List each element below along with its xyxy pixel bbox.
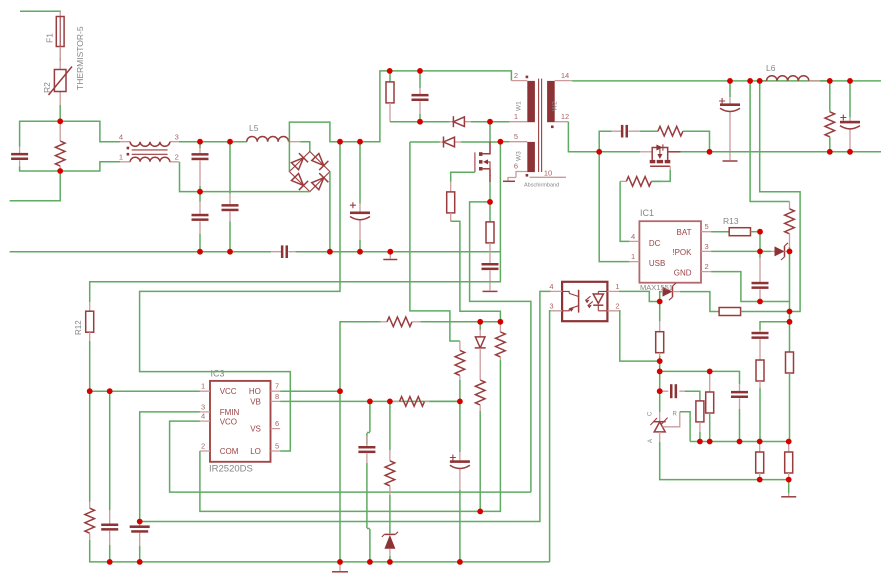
resistor R22 zigzag bbox=[85, 502, 95, 540]
svg-text:2: 2 bbox=[615, 301, 619, 310]
wire to transformer pin5 bbox=[500, 141, 509, 143]
inductor L5 bbox=[247, 123, 300, 142]
wire bbox=[20, 167, 61, 172]
resistor R24 zigzag bbox=[381, 317, 421, 327]
gnd rail y=251.7 left bbox=[10, 251, 272, 253]
node junction bbox=[737, 439, 743, 445]
node junction bbox=[787, 319, 793, 325]
IC1 MAX1551 bbox=[629, 208, 711, 283]
svg-text:1: 1 bbox=[615, 282, 619, 291]
svg-text:2: 2 bbox=[201, 442, 205, 451]
svg-text:3: 3 bbox=[705, 242, 709, 251]
thermistor R2 bbox=[42, 47, 72, 106]
wire secondary top rail bbox=[572, 80, 881, 82]
wire HO to gate drive rail bbox=[340, 322, 381, 391]
node junction bbox=[137, 559, 143, 565]
node junction bbox=[707, 369, 713, 375]
node junction bbox=[367, 559, 373, 565]
svg-text:W1: W1 bbox=[516, 101, 523, 111]
ground symbol bbox=[383, 252, 397, 260]
capacitor C2 bbox=[192, 142, 209, 186]
diode D4 schottky bbox=[660, 283, 680, 302]
wire VB chain from D2 bbox=[410, 142, 460, 341]
fuse F1 bbox=[45, 11, 65, 58]
capacitor C13 bbox=[752, 330, 769, 345]
wire R8 to DC pin bbox=[620, 181, 629, 241]
ground symbol pin6 bbox=[503, 178, 516, 182]
svg-text:2: 2 bbox=[705, 262, 709, 271]
wire cap branch bbox=[760, 322, 790, 330]
wire GND pin bbox=[711, 251, 789, 301]
svg-text:FMIN: FMIN bbox=[220, 408, 240, 417]
snubber capacitor C7 bbox=[412, 71, 429, 122]
node junction bbox=[197, 189, 203, 195]
resistor R21 bbox=[785, 442, 793, 480]
capacitor C4 bbox=[222, 142, 239, 252]
TL431 U2 bbox=[648, 391, 691, 443]
capacitor C8 bbox=[482, 243, 499, 291]
wire to bottom rail bbox=[90, 540, 550, 562]
wire bridge left loop to +rail bbox=[289, 71, 511, 172]
svg-text:W2: W2 bbox=[552, 101, 559, 111]
ground symbol bbox=[723, 160, 738, 162]
svg-text:GND: GND bbox=[674, 268, 692, 277]
gnd rail y=251.7 right bbox=[296, 251, 500, 253]
node junction bbox=[657, 299, 663, 305]
wire source jog to VCO net bbox=[470, 202, 531, 492]
ground symbol bbox=[332, 562, 348, 572]
svg-text:R13: R13 bbox=[723, 216, 739, 226]
node junction bbox=[357, 139, 363, 145]
capacitor C15 series bbox=[660, 384, 685, 398]
wire +5V rail bbox=[599, 151, 640, 153]
svg-text:4: 4 bbox=[631, 232, 635, 241]
diode D5 bbox=[475, 322, 486, 356]
svg-text:HO: HO bbox=[249, 387, 261, 396]
svg-text:Abschirmband: Abschirmband bbox=[524, 183, 559, 189]
wire bbox=[471, 121, 490, 123]
svg-text:8: 8 bbox=[275, 392, 279, 401]
node junction bbox=[387, 68, 393, 74]
resistor R13 bbox=[711, 216, 760, 236]
IC3 IR2520DS bbox=[200, 369, 280, 475]
node junction bbox=[757, 249, 763, 255]
wire to choke pin1 bbox=[60, 162, 120, 171]
inductor L6 bbox=[760, 63, 821, 81]
node junction bbox=[707, 149, 713, 155]
capacitor C16 bbox=[101, 391, 118, 562]
resistor R8 zigzag bbox=[620, 177, 660, 187]
node junction bbox=[757, 78, 763, 84]
wire bridge bottom to AC return bbox=[180, 162, 310, 192]
svg-text:5: 5 bbox=[275, 442, 279, 451]
common-mode choke L1 bbox=[119, 133, 179, 162]
wire bridge right to gnd rail bbox=[329, 172, 331, 252]
resistor R7 zigzag bbox=[640, 126, 710, 151]
wire top rail branch x760 bbox=[760, 81, 800, 312]
node junction bbox=[337, 388, 343, 394]
svg-text:VCO: VCO bbox=[220, 418, 237, 427]
node junction bbox=[357, 249, 363, 255]
wire HO down to rail bbox=[339, 391, 341, 562]
wire bottom net y441 bbox=[690, 441, 789, 443]
mosfet Q2 sync bbox=[640, 144, 680, 166]
node junction bbox=[107, 388, 113, 394]
wire y=521 to opto4 bbox=[140, 291, 551, 521]
wire +5V rail right bbox=[681, 151, 882, 153]
capacitor C10 series bbox=[612, 125, 640, 138]
node junction bbox=[657, 358, 663, 364]
wire to transformer pin1 bbox=[490, 121, 509, 123]
node junction bbox=[137, 519, 143, 525]
svg-text:BAT: BAT bbox=[677, 228, 692, 237]
wire HO net bbox=[280, 390, 340, 392]
node junction bbox=[697, 439, 703, 445]
node junction bbox=[477, 509, 483, 515]
diode D1 bbox=[450, 116, 471, 127]
svg-text:5: 5 bbox=[514, 132, 518, 141]
resistor R20 bbox=[756, 442, 764, 480]
node junction bbox=[847, 78, 853, 84]
optocoupler OK1 bbox=[549, 282, 619, 321]
resistor R9 zigzag bbox=[825, 81, 835, 152]
capacitor C11 polarized bbox=[840, 81, 860, 152]
svg-text:DC: DC bbox=[649, 239, 661, 248]
node junction bbox=[787, 309, 793, 315]
node junction bbox=[107, 559, 113, 565]
resistor R10 zigzag bbox=[785, 202, 795, 248]
svg-text:4: 4 bbox=[119, 133, 123, 142]
svg-text:LO: LO bbox=[250, 447, 261, 456]
node junction bbox=[786, 477, 792, 483]
wire COM net bbox=[200, 360, 501, 511]
node junction bbox=[477, 319, 483, 325]
wire pin12 to +5V rail bbox=[568, 122, 599, 152]
node junction bbox=[757, 229, 763, 235]
node junction bbox=[457, 559, 463, 565]
resistor R25 zigzag bbox=[475, 356, 485, 511]
node junction bbox=[757, 299, 763, 305]
resistor R19 bbox=[706, 371, 714, 441]
capacitor C3 bbox=[192, 192, 209, 234]
svg-text:14: 14 bbox=[561, 71, 569, 80]
svg-text:IC1: IC1 bbox=[640, 208, 654, 218]
node junction bbox=[387, 559, 393, 565]
wire gate Q1 bbox=[451, 172, 475, 182]
svg-text:12: 12 bbox=[561, 112, 569, 121]
node junction bbox=[596, 149, 602, 155]
svg-text:6: 6 bbox=[514, 162, 518, 171]
node junction bbox=[387, 399, 393, 405]
resistor R6 bbox=[486, 202, 494, 243]
resistor R16 bbox=[656, 302, 664, 392]
node junction bbox=[657, 369, 663, 375]
wire opto pin2 down bbox=[619, 311, 660, 361]
wire USB pin bbox=[599, 152, 629, 262]
svg-text:W3: W3 bbox=[516, 151, 523, 161]
capacitor C19 polarized bbox=[450, 401, 470, 562]
capacitor C18 bbox=[358, 401, 375, 562]
node junction bbox=[487, 199, 493, 205]
svg-text:3: 3 bbox=[201, 402, 205, 411]
node junction bbox=[387, 249, 393, 255]
wire to choke pin4 bbox=[60, 121, 120, 141]
svg-text:A: A bbox=[648, 439, 654, 443]
node junction bbox=[57, 118, 63, 124]
svg-text:L5: L5 bbox=[249, 123, 259, 133]
svg-text:1: 1 bbox=[119, 153, 123, 162]
node junction bbox=[757, 477, 763, 483]
shield pin 10 bbox=[524, 169, 566, 189]
wire L6 out bbox=[820, 80, 830, 82]
node junction bbox=[87, 388, 93, 394]
resistor R18 bbox=[696, 401, 704, 442]
wire FMIN net bbox=[140, 142, 340, 451]
wire L5 to bridge top bbox=[300, 142, 310, 152]
wire top-left input bbox=[20, 10, 60, 13]
snubber resistor R4 bbox=[386, 71, 394, 122]
node junction bbox=[827, 78, 833, 84]
node junction bbox=[707, 439, 713, 445]
svg-text:VB: VB bbox=[250, 397, 261, 406]
svg-text:MAX1551: MAX1551 bbox=[640, 283, 673, 292]
ground symbol bbox=[781, 480, 796, 497]
svg-text:2: 2 bbox=[514, 71, 518, 80]
node junction bbox=[487, 119, 493, 125]
svg-text:COM: COM bbox=[220, 447, 239, 456]
svg-text:L6: L6 bbox=[766, 63, 776, 73]
svg-text:R12: R12 bbox=[74, 320, 83, 335]
svg-text:USB: USB bbox=[649, 259, 665, 268]
wire C15 to R18 bbox=[685, 391, 700, 401]
wire POK bbox=[711, 250, 771, 252]
wire D4 to R15 bbox=[680, 292, 719, 312]
node junction bbox=[827, 149, 833, 155]
node junction bbox=[457, 399, 463, 405]
node junction bbox=[747, 78, 753, 84]
svg-text:IR2520DS: IR2520DS bbox=[209, 464, 253, 475]
node junction bbox=[417, 119, 423, 125]
wire gate Q2 bbox=[651, 166, 670, 181]
svg-text:1: 1 bbox=[201, 382, 205, 391]
capacitor C17 bbox=[130, 522, 150, 562]
wire stub down-left bbox=[10, 171, 61, 201]
svg-text:3: 3 bbox=[549, 301, 553, 310]
node junction bbox=[727, 78, 733, 84]
capacitor C1 bbox=[11, 147, 28, 167]
ground symbol bbox=[483, 290, 498, 292]
resistor R27 zigzag bbox=[455, 341, 465, 401]
node junction bbox=[337, 139, 343, 145]
wire POK chain bbox=[789, 302, 791, 353]
wire bbox=[199, 234, 201, 252]
svg-text:5: 5 bbox=[705, 222, 709, 231]
wire opto pin3 down to rail bbox=[550, 311, 551, 562]
node junction bbox=[57, 168, 63, 174]
node junction bbox=[227, 139, 233, 145]
wire snubber bottom bbox=[390, 121, 450, 123]
wire top rail branch x750 bbox=[750, 81, 789, 202]
wire FMIN pin3 bbox=[140, 412, 200, 522]
series capacitor C6 bbox=[271, 245, 295, 258]
wire VCO net bbox=[170, 421, 531, 492]
node junction bbox=[417, 68, 423, 74]
svg-text:C: C bbox=[648, 411, 654, 416]
wire opto pin1 to D4 bbox=[619, 291, 660, 301]
node junction bbox=[786, 439, 792, 445]
resistor R28 zigzag bbox=[385, 401, 395, 533]
bridge rectifier B1 bbox=[289, 152, 330, 192]
node junction bbox=[337, 559, 343, 565]
transformer TR1 bbox=[509, 71, 572, 178]
svg-text:4: 4 bbox=[201, 412, 205, 421]
svg-text:!POK: !POK bbox=[672, 248, 692, 257]
svg-text:THERMISTOR-5: THERMISTOR-5 bbox=[75, 26, 85, 90]
capacitor C9 polarized bbox=[719, 81, 740, 160]
capacitor C12 bbox=[752, 232, 769, 302]
wire to R17 bbox=[660, 371, 740, 384]
wire VB net bbox=[280, 400, 460, 402]
wire to cap C1 bbox=[20, 121, 61, 146]
wire R10 to POK node bbox=[789, 247, 791, 251]
svg-text:3: 3 bbox=[175, 133, 179, 142]
resistor R3 zigzag bbox=[55, 121, 65, 171]
wire choke pin3 to L5 bbox=[179, 141, 247, 143]
wire anode down bbox=[660, 442, 789, 480]
resistor R14 bbox=[756, 345, 764, 442]
gate resistor R5 bbox=[447, 182, 455, 221]
node junction bbox=[367, 399, 373, 405]
svg-text:R: R bbox=[673, 412, 678, 418]
svg-text:1: 1 bbox=[514, 112, 518, 121]
node junction bbox=[498, 139, 504, 145]
node junction bbox=[787, 249, 793, 255]
svg-text:F1: F1 bbox=[45, 33, 55, 43]
svg-text:VS: VS bbox=[250, 425, 261, 434]
wire bbox=[359, 240, 361, 252]
resistor R15 bbox=[719, 308, 789, 316]
wire gate chain down bbox=[451, 221, 501, 321]
svg-text:4: 4 bbox=[549, 282, 553, 291]
zener diode Z1 bbox=[382, 532, 398, 562]
node junction bbox=[327, 249, 333, 255]
wire drain vertical bbox=[489, 122, 491, 142]
bulk capacitor C5 polarized bbox=[350, 142, 370, 240]
svg-text:1: 1 bbox=[631, 252, 635, 261]
node junction bbox=[197, 139, 203, 145]
wire source down bbox=[489, 182, 491, 202]
mosfet Q1 bbox=[475, 142, 490, 182]
svg-text:2: 2 bbox=[175, 153, 179, 162]
resistor R23 zigzag bbox=[496, 322, 506, 360]
svg-text:10: 10 bbox=[544, 169, 552, 178]
svg-text:VCC: VCC bbox=[220, 387, 237, 396]
node junction bbox=[657, 388, 663, 394]
wire VCC bbox=[90, 390, 200, 392]
svg-text:R2: R2 bbox=[42, 82, 52, 93]
wire bbox=[59, 105, 61, 121]
diode D2 bbox=[410, 137, 501, 148]
capacitor C14 bbox=[731, 384, 748, 442]
resistor R11 bbox=[786, 352, 794, 442]
diode D3 POK bbox=[771, 243, 790, 260]
wire bbox=[199, 186, 201, 192]
svg-text:7: 7 bbox=[275, 382, 279, 391]
node junction bbox=[847, 149, 853, 155]
svg-text:6: 6 bbox=[275, 419, 279, 428]
svg-text:IC3: IC3 bbox=[211, 369, 225, 379]
node junction bbox=[757, 439, 763, 445]
snubber2 vertical bbox=[599, 131, 611, 152]
wire R12 down bbox=[89, 341, 91, 502]
node junction bbox=[498, 319, 504, 325]
wire pin5 node down to left rail bbox=[90, 142, 501, 302]
node junction bbox=[227, 249, 233, 255]
node junction bbox=[197, 249, 203, 255]
resistor R26 zigzag horizontal bbox=[390, 397, 460, 407]
resistor R12 bbox=[74, 302, 94, 341]
wire y=321.8 bbox=[420, 321, 500, 323]
